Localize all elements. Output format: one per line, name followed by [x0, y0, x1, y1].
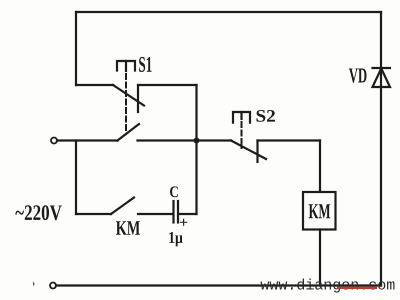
label VD [349, 69, 367, 83]
junction node dot [194, 138, 200, 144]
capacitor C right plate [177, 201, 179, 223]
contactor coil KM box [303, 192, 336, 230]
pushbutton S1 stem [125, 61, 127, 71]
pushbutton S1 actuator bracket [117, 61, 135, 71]
wire main left segment [57, 139, 118, 141]
wire right vertical rail [380, 12, 382, 286]
label 220V source [15, 205, 61, 220]
wire left lower vertical [75, 141, 77, 215]
label plus polarity [180, 219, 188, 226]
pushbutton S1 dashed link [125, 74, 127, 133]
wire capacitor to junction vertical [179, 213, 197, 215]
capacitor C left plate [172, 201, 174, 223]
wire top rail [76, 11, 381, 13]
label S1 [139, 57, 152, 72]
wire S1 NC right lead [138, 84, 197, 86]
diode VD cathode bar [373, 67, 391, 69]
wire down to KM coil [319, 141, 321, 193]
pushbutton S2 stem [240, 112, 242, 119]
switch S2 fixed bar [256, 141, 258, 163]
switch S1 NO blade [118, 124, 140, 141]
wire S1 NC left lead [76, 84, 113, 86]
wire KM contact left lead [76, 213, 111, 215]
wire KM contact to capacitor [138, 213, 172, 215]
label 1u value [169, 232, 182, 246]
wire bottom rail [56, 284, 381, 286]
switch S1 NC blade [113, 85, 144, 106]
label C [170, 186, 178, 197]
label S2 [257, 110, 275, 122]
switch S1 NC fixed bar [137, 85, 139, 112]
label KM inside coil box [309, 204, 330, 218]
watermark red strike [337, 287, 377, 289]
diode VD triangle [373, 69, 391, 88]
wire left upper vertical [75, 12, 77, 85]
wire S2 right lead [258, 139, 321, 141]
wire KM coil to bottom rail [319, 230, 321, 286]
terminal upper circle [51, 138, 57, 144]
terminal lower circle [50, 283, 56, 289]
wire middle vertical through junction [195, 85, 197, 214]
pushbutton S2 dashed link [241, 122, 243, 148]
ink speck near lower terminal [33, 282, 34, 287]
wire main right of S1 to S2 [138, 139, 232, 141]
watermark www.diangon.com [261, 279, 395, 293]
contact KM NO blade [111, 198, 134, 215]
pushbutton S2 actuator bracket [233, 112, 250, 123]
label KM under contact [116, 221, 140, 235]
switch S2 blade [231, 141, 266, 160]
